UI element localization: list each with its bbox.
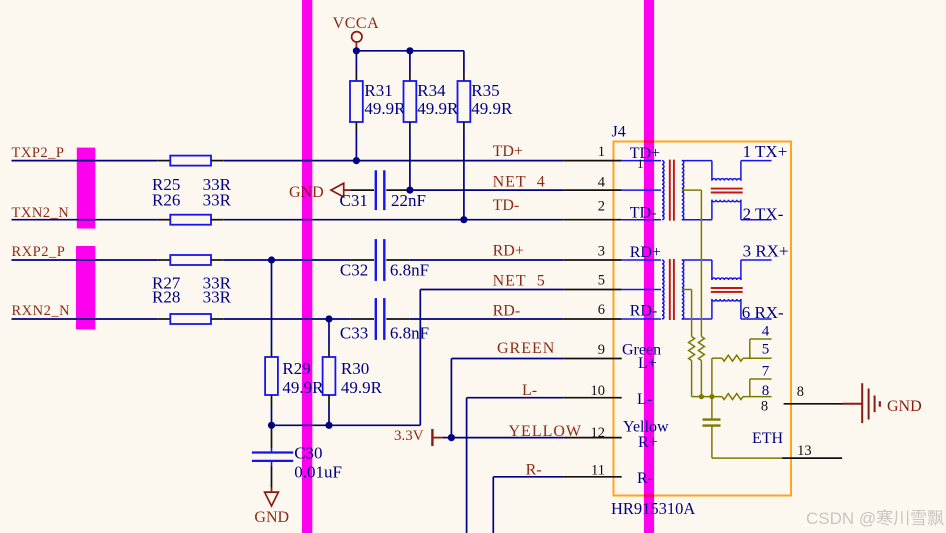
pin number 1 inside <box>637 156 644 171</box>
svg-text:3 RX+: 3 RX+ <box>743 242 789 261</box>
resistor row pins 4-5 (olive) <box>712 355 772 396</box>
svg-text:ETH: ETH <box>752 430 784 447</box>
svg-text:6.8nF: 6.8nF <box>390 324 429 343</box>
capacitor CT (olive) <box>703 397 721 459</box>
label R27 33R <box>152 274 232 293</box>
svg-text:5: 5 <box>762 342 770 358</box>
pin number 4 inside <box>762 324 770 340</box>
resistor R26 <box>170 215 211 225</box>
resistor R28 <box>170 314 211 324</box>
net label R- <box>526 462 542 479</box>
junction node-R30 <box>325 422 332 429</box>
svg-text:RD-: RD- <box>493 303 521 320</box>
svg-text:R31: R31 <box>364 81 392 100</box>
junction R31-TD+ <box>353 157 360 164</box>
label R+ inside <box>638 434 658 451</box>
svg-text:4: 4 <box>598 175 606 191</box>
label TD- inside <box>630 205 657 222</box>
svg-text:8: 8 <box>797 384 804 400</box>
resistor row pins 7-8 (olive) <box>692 394 772 400</box>
capacitor C33 <box>350 298 409 340</box>
wire RX center tap (olive) <box>682 290 692 337</box>
svg-text:C31: C31 <box>340 191 368 210</box>
svg-text:R30: R30 <box>341 359 369 378</box>
svg-text:6.8nF: 6.8nF <box>390 261 429 280</box>
svg-text:49.9R: 49.9R <box>417 99 459 118</box>
svg-text:5: 5 <box>598 273 605 289</box>
net label TD+ <box>493 143 523 160</box>
highlight bar 2 (magenta) <box>644 0 654 533</box>
pin number 4 <box>598 175 606 191</box>
net label RD- <box>493 303 521 320</box>
wire R27 to C32 <box>211 259 350 261</box>
highlight TX ports (magenta) <box>77 148 96 229</box>
capacitor C32 <box>350 239 409 281</box>
pin number 1 <box>598 144 605 160</box>
pin number 12 <box>591 425 606 441</box>
pin number 8 right <box>797 384 804 400</box>
wire NET 4 to pin 4 <box>410 189 564 191</box>
label R25 33R <box>152 175 232 194</box>
pin number 10 <box>591 383 606 399</box>
junction node-R29 <box>268 422 275 429</box>
junction olive node <box>699 394 715 399</box>
junction rail-R31 <box>353 47 360 54</box>
transformer T2 (RX) <box>622 259 772 320</box>
svg-text:R-: R- <box>526 462 542 479</box>
pin number 6 <box>598 302 605 318</box>
wire NET 5 riser <box>420 290 563 426</box>
junction C31-R34-NET4 <box>406 187 413 194</box>
wire ETH (olive) <box>712 457 782 459</box>
net port RXN2_N <box>12 303 71 319</box>
wire TX center tap (olive) <box>682 190 702 336</box>
pin number 11 <box>591 463 605 479</box>
net port TXN2_N <box>12 205 70 221</box>
svg-text:33R: 33R <box>203 288 232 307</box>
svg-text:13: 13 <box>797 443 812 459</box>
net label NET 5 <box>493 273 546 290</box>
label R26 33R <box>152 191 232 210</box>
svg-text:VCCA: VCCA <box>333 15 379 32</box>
svg-text:TXN2_N: TXN2_N <box>12 205 70 221</box>
svg-text:TXP2_P: TXP2_P <box>12 145 65 161</box>
net port TXP2_P <box>12 145 65 161</box>
watermark CSDN <box>806 509 944 528</box>
label RD+ inside <box>630 244 661 261</box>
svg-text:7: 7 <box>762 364 770 380</box>
capacitor C30 <box>252 425 293 488</box>
svg-text:8: 8 <box>762 383 770 399</box>
wire RXN2_N to R28 <box>12 318 171 320</box>
pin number 5 inside <box>762 342 770 358</box>
svg-text:12: 12 <box>591 425 606 441</box>
svg-text:RXN2_N: RXN2_N <box>12 303 71 319</box>
junction R35-TD- <box>460 216 467 223</box>
pin 1 stub <box>564 160 622 162</box>
junction RXN2_N-R30 <box>325 315 332 322</box>
power port VCCA <box>333 15 379 51</box>
svg-text:GREEN: GREEN <box>497 340 555 357</box>
pin 13 stub <box>782 457 842 459</box>
net port RXP2_P <box>12 244 66 260</box>
label L+ inside <box>638 355 657 372</box>
wire R25 to TD+ node <box>211 160 564 162</box>
pin 9 stub <box>564 358 622 360</box>
power port GND (arrow) <box>289 183 350 201</box>
label 2 TX- <box>743 205 784 224</box>
wire TXP2_P to R25 <box>12 160 171 162</box>
label RD- inside <box>630 303 658 320</box>
svg-text:NET 4: NET 4 <box>493 174 546 191</box>
svg-text:22nF: 22nF <box>391 191 426 210</box>
svg-text:TD+: TD+ <box>493 143 523 160</box>
label ETH inside <box>752 430 784 447</box>
svg-text:R26: R26 <box>152 191 180 210</box>
svg-text:NET 5: NET 5 <box>493 273 546 290</box>
wire GREEN <box>451 359 563 438</box>
highlight bar 1 (magenta) <box>302 0 312 533</box>
label 3 RX+ <box>743 242 789 261</box>
wire R28 to C33 <box>211 318 350 320</box>
label C32 6.8nF <box>340 261 429 280</box>
svg-text:49.9R: 49.9R <box>341 378 383 397</box>
svg-text:3: 3 <box>598 243 605 259</box>
wire VCCA rail <box>356 50 464 52</box>
net label GREEN <box>497 340 555 357</box>
label L- inside <box>637 391 652 408</box>
svg-text:R28: R28 <box>152 288 180 307</box>
pin 4 stub <box>564 189 622 191</box>
highlight RX ports (magenta) <box>76 246 95 329</box>
pin number 9 <box>598 342 605 358</box>
svg-text:GND: GND <box>254 509 289 526</box>
pin number 7 inside <box>762 364 770 380</box>
transformer T1 (TX) <box>622 160 772 221</box>
label R34 49.9R <box>417 81 459 118</box>
resistor RX tap (olive zigzag) <box>689 337 695 397</box>
pin 11 stub <box>564 476 622 478</box>
wire bottom node <box>272 424 421 426</box>
wire R- <box>493 477 563 533</box>
wire R30 lead <box>328 319 330 357</box>
svg-text:33R: 33R <box>203 191 232 210</box>
label R35 49.9R <box>471 81 513 118</box>
pin 10 stub <box>564 397 622 399</box>
net label NET 4 <box>493 174 546 191</box>
svg-text:TD-: TD- <box>493 197 520 214</box>
label C33 6.8nF <box>340 324 429 343</box>
connector J4 box <box>614 142 792 496</box>
pin 7 stub (olive) <box>750 379 772 397</box>
pin 2 stub <box>564 219 622 221</box>
svg-text:1 TX+: 1 TX+ <box>743 142 788 161</box>
label R31 49.9R <box>364 81 406 118</box>
resistor R25 <box>170 156 211 166</box>
resistor TX tap (olive zigzag) <box>698 337 704 397</box>
capacitor C31 <box>350 170 410 210</box>
net label TD- <box>493 197 520 214</box>
label C30 0.01uF <box>294 443 342 481</box>
svg-text:6 RX-: 6 RX- <box>742 303 784 322</box>
svg-text:9: 9 <box>598 342 605 358</box>
svg-text:8: 8 <box>761 398 768 414</box>
pin 5 stub <box>564 289 622 291</box>
svg-text:3.3V: 3.3V <box>394 428 424 444</box>
svg-text:GND: GND <box>887 398 922 415</box>
power port GND (triangle) <box>254 488 289 526</box>
wire RXP2_P to R27 <box>12 259 171 261</box>
wire L- <box>467 398 564 533</box>
wire YELLOW <box>451 437 563 439</box>
net label RD+ <box>493 242 524 259</box>
pin 4 stub (olive) <box>750 339 772 358</box>
svg-text:J4: J4 <box>612 124 626 141</box>
net label YELLOW <box>509 423 583 440</box>
pin number 8 inside <box>762 383 770 399</box>
svg-text:1: 1 <box>598 144 605 160</box>
resistor R27 <box>170 255 211 265</box>
junction 3.3V node <box>448 434 455 441</box>
wire TXN2_N to R26 <box>12 219 171 221</box>
label 1 TX+ <box>743 142 788 161</box>
svg-text:RXP2_P: RXP2_P <box>12 244 66 260</box>
svg-text:R34: R34 <box>417 81 446 100</box>
svg-text:2: 2 <box>598 199 605 215</box>
label R30 49.9R <box>341 359 383 397</box>
label R29 49.9R <box>282 359 324 397</box>
svg-text:0.01uF: 0.01uF <box>294 463 342 482</box>
svg-text:R35: R35 <box>471 81 499 100</box>
pin 3 stub <box>564 259 622 261</box>
label HR915310A <box>611 499 695 518</box>
pin 12 stub <box>564 437 622 439</box>
junction RXP2_P-R29 <box>268 256 275 263</box>
svg-text:2 TX-: 2 TX- <box>743 205 784 224</box>
pin number 13 <box>797 443 812 459</box>
label TD+ inside <box>630 145 660 162</box>
svg-text:L-: L- <box>522 382 537 399</box>
wire R26 to TD- node <box>211 219 564 221</box>
resistor R30 <box>323 357 336 425</box>
label Green inside <box>622 342 661 359</box>
power port 3.3V <box>394 428 451 446</box>
svg-text:6: 6 <box>598 302 605 318</box>
wire R29 lead <box>271 260 273 357</box>
label R- inside <box>637 470 653 487</box>
svg-text:C33: C33 <box>340 324 368 343</box>
label J4 <box>612 124 626 141</box>
resistor R29 <box>265 357 278 425</box>
label 6 RX- <box>742 303 784 322</box>
svg-text:49.9R: 49.9R <box>471 99 513 118</box>
svg-text:RD+: RD+ <box>493 242 524 259</box>
label Yellow inside <box>623 419 669 436</box>
resistor R35 <box>458 51 471 220</box>
pin number 3 <box>598 243 605 259</box>
label C31 22nF <box>340 191 426 210</box>
svg-text:11: 11 <box>591 463 605 479</box>
pin number 2 <box>598 199 605 215</box>
pin number 8 left <box>761 398 768 414</box>
power port GND (bars) <box>843 383 922 423</box>
svg-text:10: 10 <box>591 383 606 399</box>
label R28 33R <box>152 288 232 307</box>
svg-text:CSDN @寒川雪飘: CSDN @寒川雪飘 <box>806 509 944 528</box>
resistor R31 <box>350 51 363 161</box>
svg-text:4: 4 <box>762 324 770 340</box>
wire C33 to pin 6 <box>410 318 564 320</box>
svg-text:1: 1 <box>637 156 644 171</box>
pin 6 stub <box>564 318 622 320</box>
svg-text:49.9R: 49.9R <box>364 99 406 118</box>
junction rail-R34 <box>406 47 413 54</box>
net label L- <box>522 382 537 399</box>
wire C32 to pin 3 <box>410 259 564 261</box>
pin number 5 <box>598 273 605 289</box>
svg-text:C32: C32 <box>340 261 368 280</box>
pin 8 stub <box>784 403 844 405</box>
resistor R34 <box>404 51 417 190</box>
